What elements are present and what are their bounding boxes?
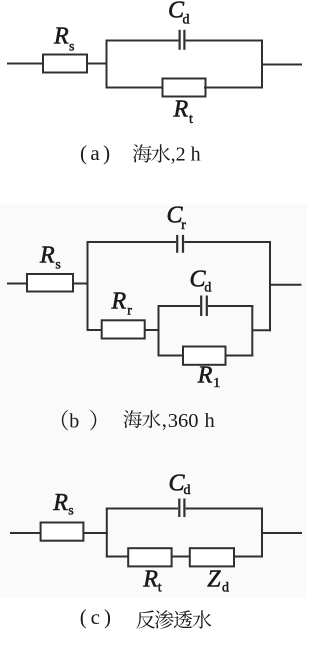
wire Z_d to loop right (c) [234,556,263,558]
svg-text:s: s [68,504,73,519]
wire inner top branch left segment (b) [158,305,201,307]
diffusion impedance Z_d (c) [190,548,234,566]
capacitor C_d (c) [178,499,180,518]
resistor R_t (c) [128,548,171,566]
circuit (c): wire, input terminal [10,532,42,534]
svg-text:d: d [184,483,191,498]
svg-text:R: R [53,23,69,49]
wire top branch left segment (c) [106,508,178,510]
svg-text:s: s [69,39,74,54]
wire inner bottom branch left segment (b) [158,355,185,357]
svg-text:d: d [204,281,211,296]
circuit (a): wire, input terminal [7,63,44,65]
wire outer bottom branch to R_r (b) [87,329,104,331]
node: loop right vertical (a) [261,40,263,89]
wire inner loop to outer right vertical (b) [252,329,271,331]
svg-text:d: d [183,13,190,28]
resistor R_1 (b) [183,347,226,365]
resistor R_t (a) [163,79,206,97]
svg-text:(c): (c) [80,605,115,629]
node: loop left vertical (a) [106,40,108,89]
svg-text:r: r [181,218,186,233]
wire top branch right segment (c) [186,508,263,510]
capacitor C_d (b) [200,296,202,317]
resistor R_s (b) [27,274,73,292]
capacitor C_d (a) [179,30,181,50]
svg-text:R: R [111,288,127,314]
wire bottom branch right segment (a) [204,87,263,89]
node: inner loop left vertical (b) [158,305,160,357]
wire R_s to parallel loop (c) [83,532,108,534]
svg-text:R: R [39,243,55,269]
svg-text:Z: Z [207,567,221,593]
caption (b) close paren [90,410,96,431]
wire inner bottom branch right segment (b) [225,355,254,357]
wire R_s to outer loop (b) [72,283,89,285]
node: outer loop right vertical (b) [269,242,271,332]
svg-text:1: 1 [213,376,220,391]
circuit (b): wire, input terminal [7,283,28,285]
resistor R_r (b) [102,320,145,338]
wire top branch left segment (a) [106,40,179,42]
svg-text:R: R [52,490,68,516]
wire bottom branch left segment (a) [106,87,165,89]
node: loop right vertical (c) [261,508,263,558]
capacitor C_r (b) [176,235,178,253]
resistor R_s (a) [43,55,87,73]
svg-text:t: t [158,581,162,596]
svg-text:360: 360 [168,410,199,432]
wire output terminal (a) [262,64,302,66]
svg-text:b: b [69,411,79,433]
svg-text:R: R [173,97,189,123]
svg-text:,2 h: ,2 h [171,144,201,166]
node: outer loop left vertical (b) [87,242,89,332]
wire bottom branch left segment (c) [106,556,130,558]
svg-text:h: h [205,410,215,432]
svg-text:R: R [142,567,158,593]
svg-text:r: r [127,303,132,318]
svg-text:(a): (a) [80,141,114,165]
svg-text:t: t [189,112,193,127]
wire R_t to Z_d (c) [172,556,191,558]
node: inner loop right vertical (b) [251,305,253,357]
svg-text:d: d [222,581,229,596]
node: loop left vertical (c) [106,508,108,558]
wire output terminal (c) [262,532,302,534]
wire R_s to parallel loop (a) [86,63,108,65]
wire inner top branch right segment (b) [208,305,253,307]
svg-text:s: s [55,258,60,273]
svg-text:R: R [197,363,213,389]
wire outer top branch left segment (b) [87,241,177,243]
wire output terminal (b) [270,284,302,286]
wire R_r to inner loop (b) [145,329,160,331]
wire top branch right segment (a) [186,40,263,42]
caption (b) [62,410,68,431]
caption (b) cjk [124,410,142,428]
resistor R_s (c) [41,523,84,541]
wire outer top branch right segment (b) [184,241,271,243]
